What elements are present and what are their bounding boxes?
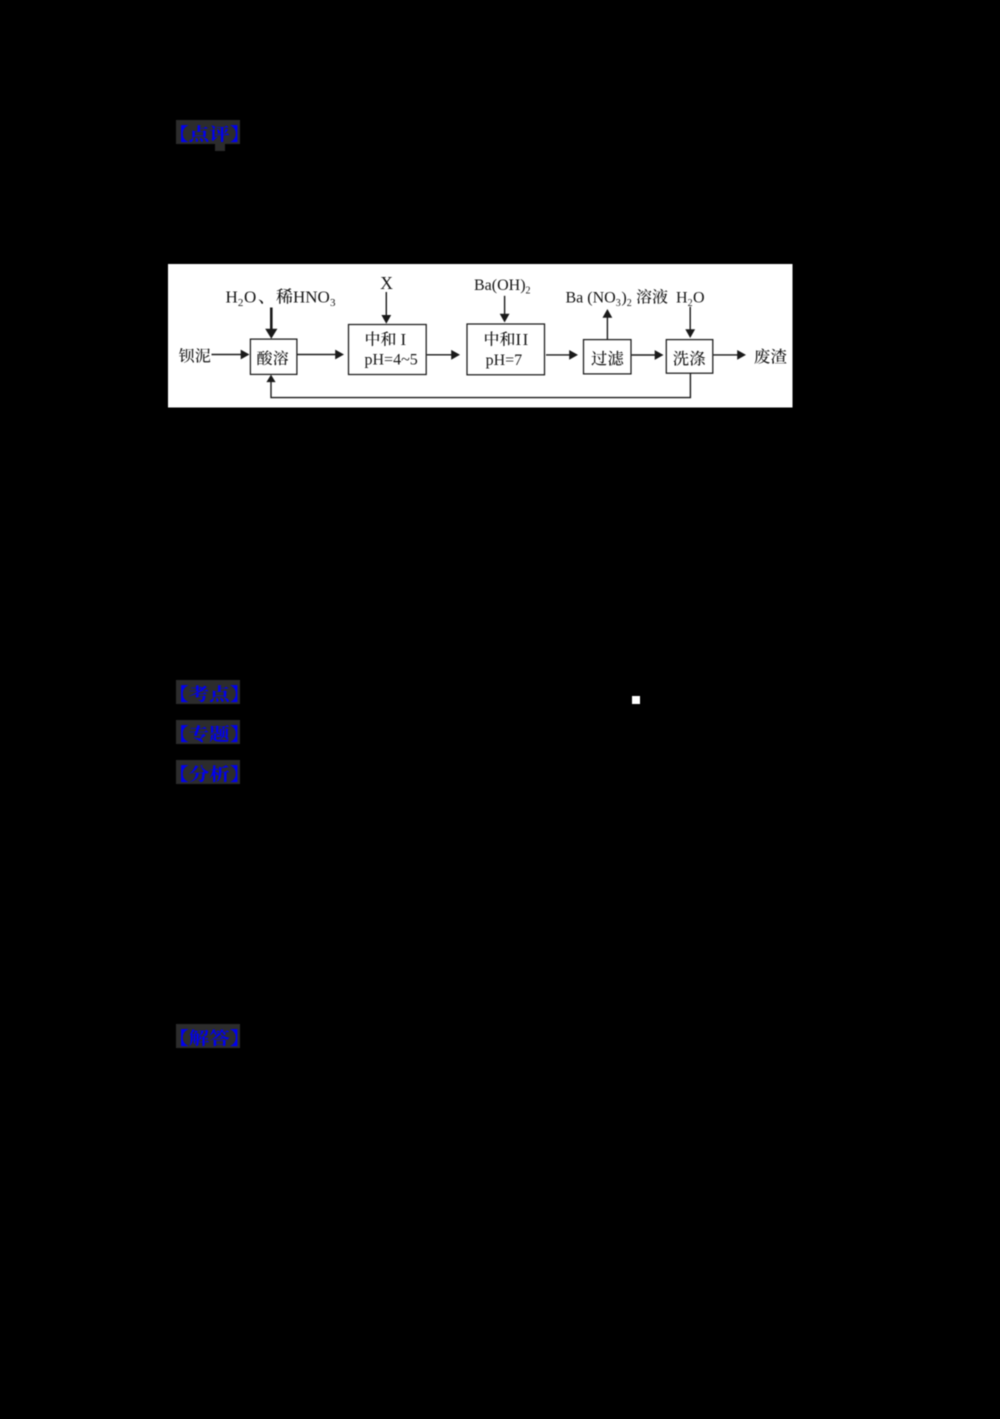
svg-text:pH=7: pH=7 [486,352,523,369]
svg-text:H: H [226,288,238,307]
svg-text:Ba (NO: Ba (NO [566,290,616,307]
svg-text:3: 3 [330,297,336,309]
svg-text:H: H [676,290,688,307]
svg-text:X: X [380,273,393,293]
svg-text:2: 2 [526,286,531,297]
svg-text:2: 2 [688,298,693,309]
svg-text:2: 2 [627,298,632,309]
svg-text:O: O [693,290,705,307]
svg-text:O: O [244,288,256,307]
svg-text:3: 3 [616,298,621,309]
svg-text:2: 2 [238,297,244,309]
svg-text:II: II [516,330,530,349]
svg-text:I: I [401,330,407,349]
svg-text:pH=4~5: pH=4~5 [365,352,418,369]
svg-text:HNO: HNO [293,288,330,307]
svg-text:Ba(OH): Ba(OH) [474,277,526,294]
